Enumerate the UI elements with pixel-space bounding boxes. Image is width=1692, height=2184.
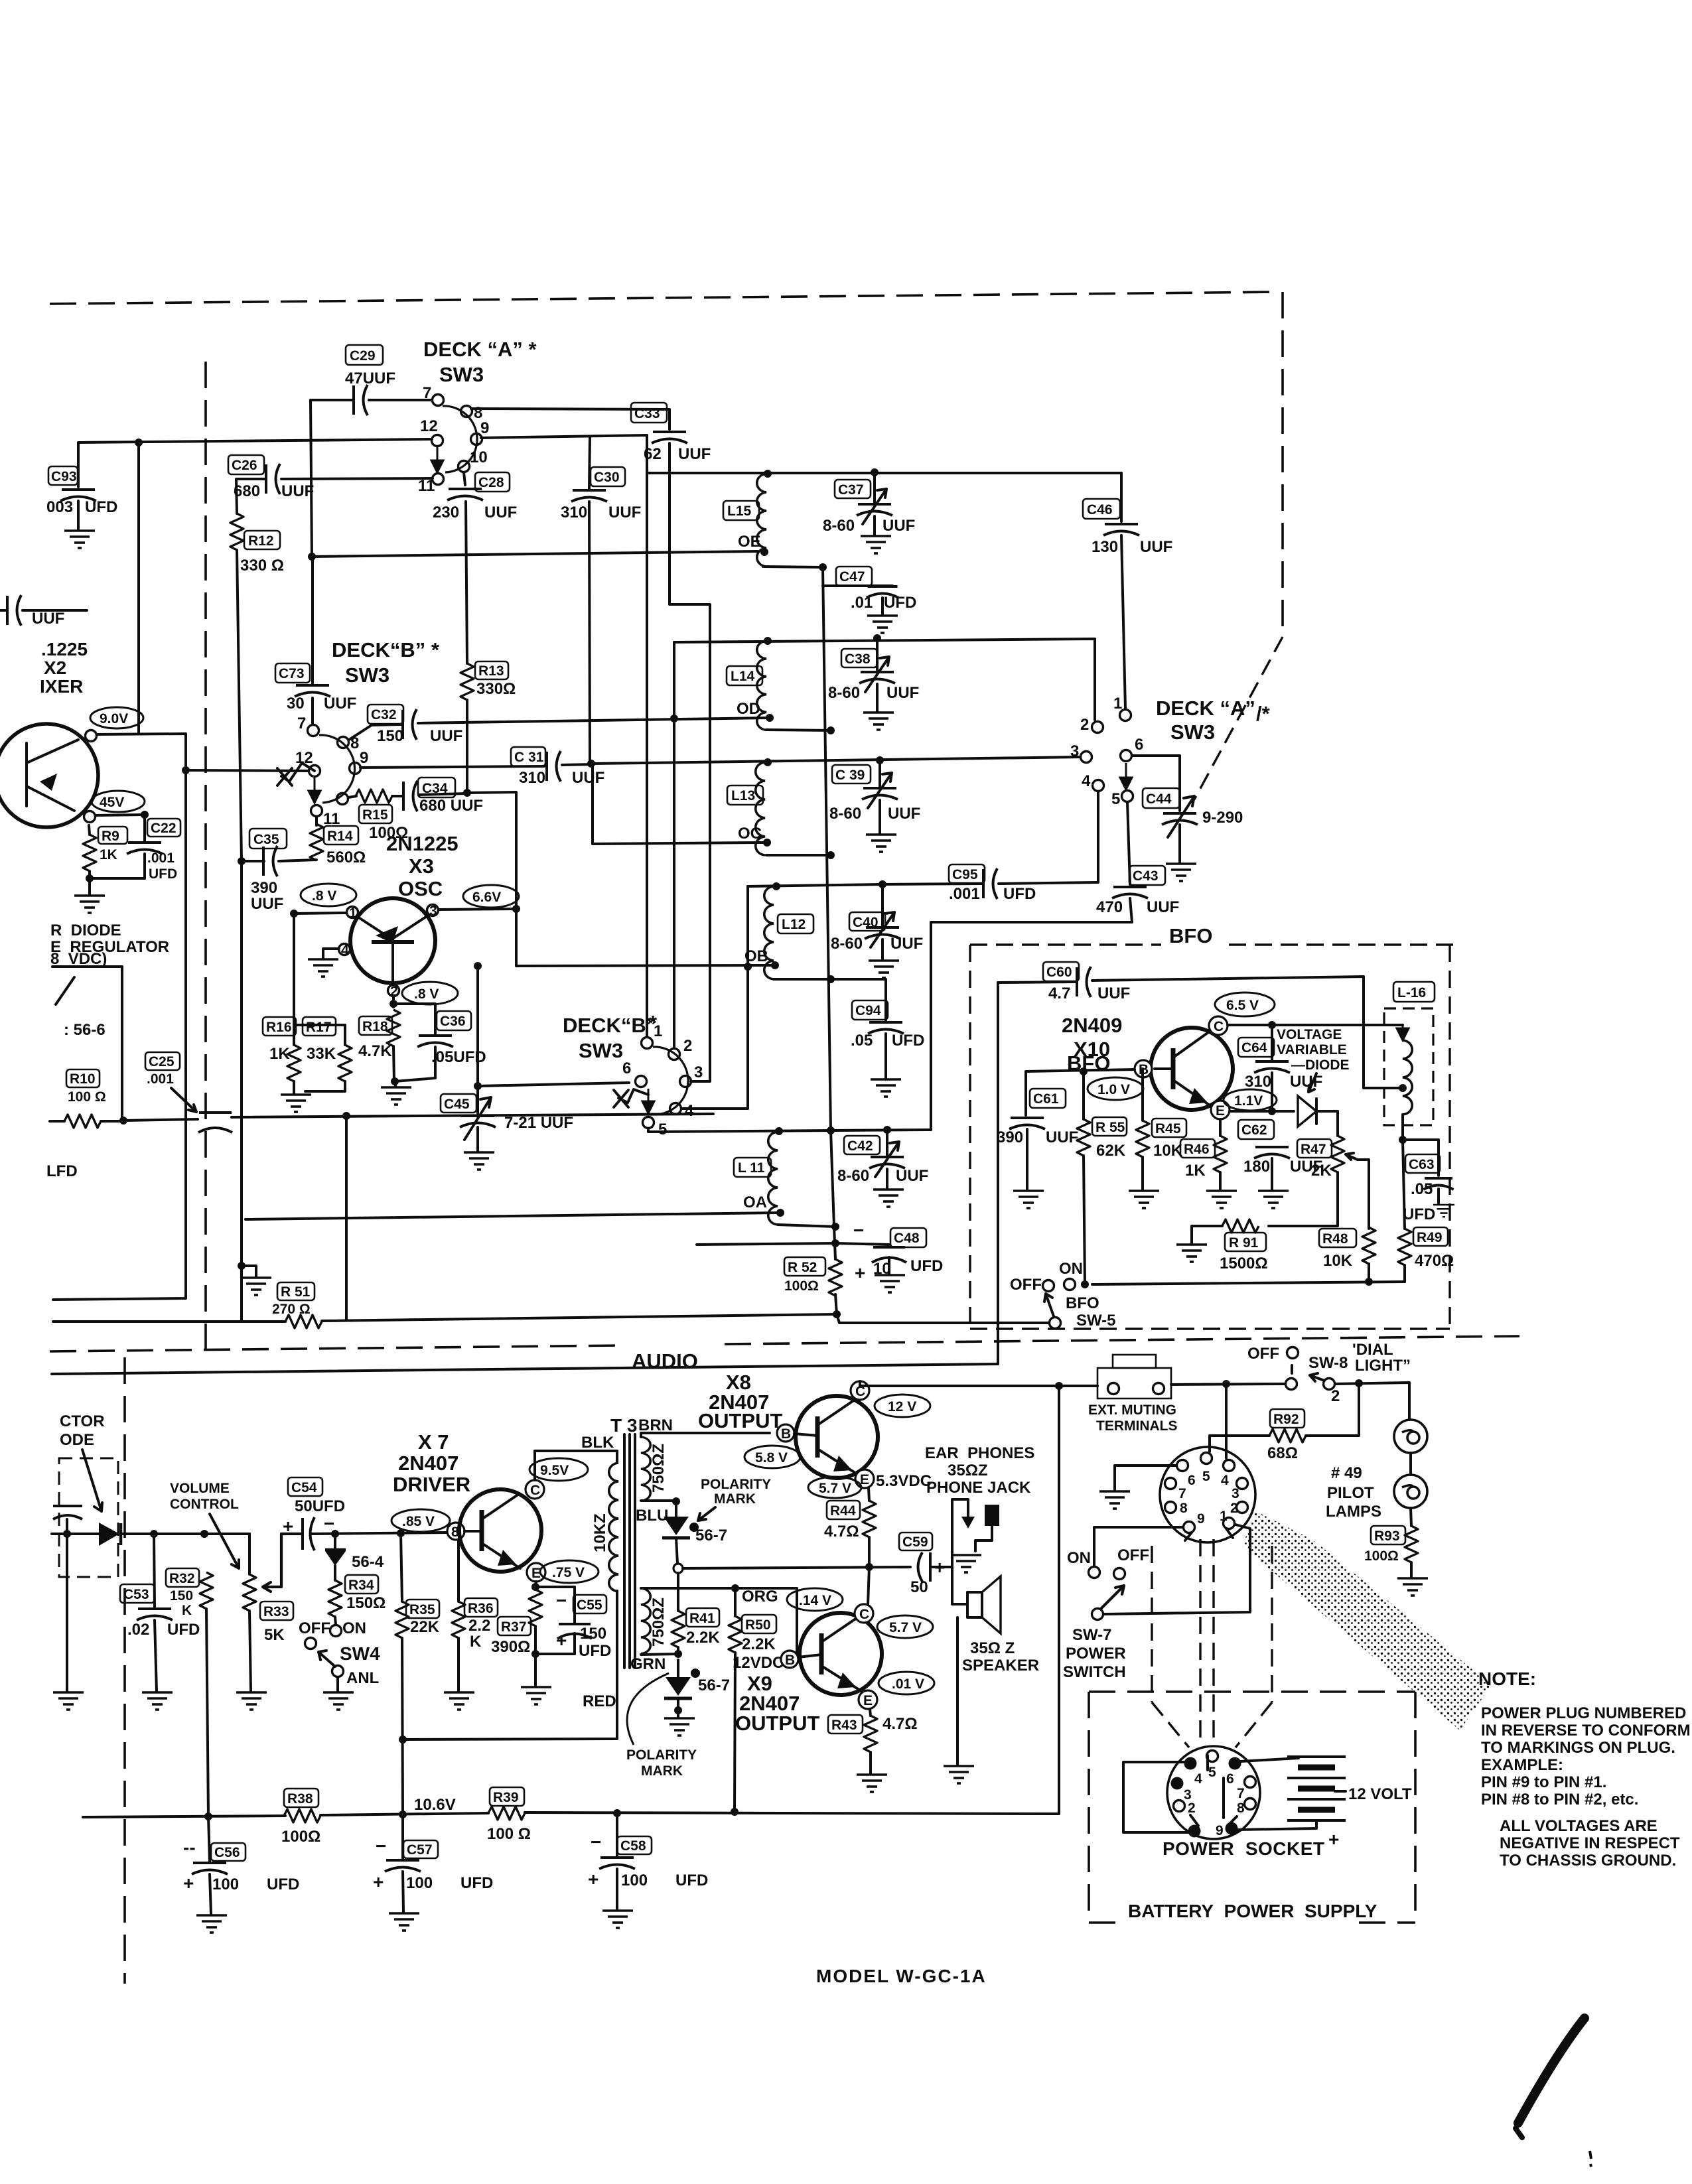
- capacitor C73: [275, 557, 356, 724]
- svg-text:.8 V: .8 V: [312, 888, 336, 904]
- junction C37: [871, 468, 879, 476]
- junction R18 bottom: [391, 1077, 399, 1085]
- junction L14 top: [764, 637, 772, 645]
- svg-text:C42: C42: [847, 1138, 873, 1154]
- junction C38: [873, 634, 881, 642]
- svg-text:.85 V: .85 V: [402, 1514, 435, 1529]
- wire pin2/C45 line: [392, 1004, 395, 1007]
- svg-text:4: 4: [685, 1102, 694, 1120]
- capacitor C59: [898, 1533, 952, 1596]
- svg-text:R45: R45: [1155, 1121, 1181, 1136]
- audio top rail wire: [52, 983, 998, 1374]
- svg-text:UUF: UUF: [888, 805, 920, 823]
- junction: [182, 766, 190, 774]
- junction C57: [399, 1810, 407, 1818]
- capacitor C40 variable: [831, 884, 923, 978]
- svg-text:POLARITY: POLARITY: [701, 1477, 771, 1492]
- svg-text:5: 5: [1111, 790, 1120, 808]
- svg-text:9: 9: [480, 419, 489, 437]
- pin C of X7: [526, 1480, 544, 1499]
- coil L13: [727, 762, 765, 855]
- svg-text:UFD: UFD: [267, 1876, 299, 1893]
- wire R12 down to C35 node: [237, 550, 242, 861]
- pin 2 of X3: [388, 985, 399, 996]
- capacitor C95: [882, 791, 1098, 903]
- switch SW4 ANL: [299, 1619, 380, 1710]
- svg-text:ON: ON: [1059, 1260, 1083, 1278]
- junction L16 bottom: [1399, 1136, 1407, 1144]
- wire L13 bottom to bus: [766, 854, 831, 856]
- svg-text:35Ω Z: 35Ω Z: [970, 1639, 1015, 1657]
- cut-off series capacitor fragment left edge: [0, 595, 87, 628]
- svg-text:PHONE JACK: PHONE JACK: [926, 1479, 1031, 1497]
- svg-text:C: C: [1214, 1019, 1224, 1034]
- svg-text:R41: R41: [689, 1611, 715, 1626]
- capacitor C43: [931, 802, 1179, 1130]
- pin C of X8: [851, 1381, 869, 1400]
- svg-text:TO CHASSIS GROUND.: TO CHASSIS GROUND.: [1500, 1852, 1676, 1870]
- junction GRN: [674, 1650, 682, 1658]
- coil L11: [734, 1132, 778, 1225]
- svg-text:IN REVERSE TO CONFORM: IN REVERSE TO CONFORM: [1481, 1722, 1691, 1740]
- resistor R55: [1077, 1071, 1127, 1284]
- svg-text:R 55: R 55: [1095, 1120, 1125, 1135]
- svg-text:UFD: UFD: [85, 498, 117, 516]
- svg-text:C93: C93: [51, 469, 77, 484]
- junction base node: [1080, 1067, 1088, 1075]
- resistor R16: [263, 1017, 301, 1081]
- wire feedback to T3 red: [403, 1591, 617, 1740]
- capacitor C39 variable: [829, 760, 920, 852]
- resistor R41: [671, 1573, 720, 1654]
- svg-text:10KZ: 10KZ: [591, 1513, 609, 1552]
- junction R51/x522: [833, 1310, 841, 1318]
- label X8 2N407 OUTPUT: [698, 1371, 783, 1432]
- svg-text:1K: 1K: [1185, 1162, 1206, 1180]
- junction ground stub: [238, 1262, 246, 1270]
- svg-text:+: +: [283, 1516, 293, 1536]
- wire BFO bottom rail: [1092, 1282, 1405, 1284]
- svg-text:C47: C47: [839, 569, 865, 584]
- switch SW-7 power: [1063, 1546, 1149, 1681]
- pilot lamp 1: [1394, 1420, 1427, 1453]
- resistor R39: [487, 1787, 531, 1843]
- svg-text:B: B: [785, 1653, 795, 1668]
- wire R10 node to C25: [124, 1119, 198, 1121]
- wire secondary bottom to GRN junction: [641, 1654, 678, 1655]
- pin 4 of X3: [339, 944, 350, 955]
- svg-text:OA: OA: [743, 1194, 767, 1211]
- label 2N1225 X3 OSC: [386, 832, 458, 900]
- junction OE wire: [308, 553, 316, 561]
- capacitor C46: [1083, 473, 1172, 709]
- wire C31 node to OC tap: [593, 764, 763, 844]
- svg-text:100Ω: 100Ω: [784, 1278, 819, 1294]
- svg-text:L13: L13: [731, 788, 755, 803]
- svg-text:R35: R35: [409, 1602, 435, 1617]
- svg-text:—DIODE: —DIODE: [1291, 1058, 1350, 1073]
- svg-text:UUF: UUF: [890, 935, 923, 953]
- svg-text:C54: C54: [291, 1480, 317, 1495]
- svg-text:C60: C60: [1046, 965, 1072, 980]
- capacitor C57: [373, 1814, 493, 1931]
- svg-text:K: K: [470, 1633, 482, 1651]
- svg-text:4.7K: 4.7K: [358, 1042, 392, 1060]
- svg-text:GRN: GRN: [630, 1655, 666, 1673]
- svg-text:2N407: 2N407: [398, 1452, 458, 1475]
- svg-text:C 31: C 31: [514, 750, 544, 765]
- wire C93 node to deck B contact 12: [78, 439, 432, 443]
- svg-text:OFF: OFF: [299, 1619, 330, 1637]
- capacitor C44 variable: [1132, 756, 1243, 881]
- wire pin1 to C22 node: [96, 815, 145, 815]
- junction: [290, 910, 298, 918]
- junction R10: [119, 1117, 127, 1125]
- wire ORG lead: [641, 1588, 797, 1653]
- junction OC tap: [763, 839, 771, 847]
- pin 3 of X2: [86, 730, 97, 742]
- junction lower diode bottom: [674, 1706, 682, 1714]
- svg-text:UFD: UFD: [675, 1872, 708, 1889]
- svg-text:UUF: UUF: [32, 610, 64, 628]
- wire L15 bottom to bus: [763, 567, 823, 567]
- svg-text:2.2K: 2.2K: [686, 1629, 720, 1647]
- svg-text:100Ω: 100Ω: [281, 1828, 320, 1846]
- label X7 2N407 DRIVER: [393, 1430, 470, 1496]
- wire X8 collector: [860, 1381, 1059, 1386]
- wire OA from C45 line: [246, 1213, 778, 1219]
- svg-text:UUF: UUF: [886, 684, 919, 702]
- svg-text:C29: C29: [350, 348, 376, 364]
- resistor R44: [824, 1488, 876, 1567]
- top dash-dot border: [50, 292, 1281, 304]
- arrow from regulator label: [56, 977, 74, 1004]
- svg-text:R93: R93: [1374, 1529, 1400, 1544]
- svg-text:MARK: MARK: [641, 1763, 683, 1779]
- svg-text:UFD: UFD: [149, 866, 177, 882]
- capacitor C33: [631, 403, 711, 1081]
- svg-text:R10: R10: [70, 1071, 96, 1087]
- junction C64: [1268, 1021, 1276, 1029]
- voltage 5.7V: [808, 1477, 861, 1498]
- wire pin1 to R16 node: [294, 913, 346, 914]
- svg-text:310: 310: [561, 504, 587, 521]
- svg-text:−: −: [376, 1836, 386, 1856]
- svg-text:C53: C53: [123, 1587, 149, 1602]
- label volume control: [170, 1481, 239, 1568]
- svg-text:+: +: [556, 1630, 567, 1651]
- svg-text:C59: C59: [902, 1535, 928, 1550]
- svg-text:C73: C73: [279, 666, 305, 681]
- svg-text:1: 1: [1220, 1509, 1228, 1524]
- svg-text:8 VDC): 8 VDC): [50, 950, 107, 968]
- svg-text:6.6V: 6.6V: [472, 890, 501, 905]
- left dash-dot border audio section: [123, 1357, 126, 1984]
- svg-text:2: 2: [1331, 1387, 1340, 1405]
- svg-text:8: 8: [1237, 1801, 1245, 1816]
- svg-text:7: 7: [423, 384, 431, 402]
- label detector diode (cut): [60, 1412, 105, 1449]
- svg-text:.05: .05: [1411, 1180, 1433, 1198]
- label polarity mark upper: [689, 1477, 771, 1532]
- junction X8 collector riser: [1055, 1382, 1063, 1390]
- svg-text:100: 100: [406, 1874, 433, 1892]
- svg-text:1.1V: 1.1V: [1234, 1093, 1263, 1109]
- diode 56-7 lower: [664, 1660, 730, 1710]
- svg-text:UUF: UUF: [324, 695, 356, 713]
- label 2N409 X10 BFO: [1062, 1014, 1122, 1075]
- junction pin2: [389, 1000, 397, 1008]
- svg-text:ON: ON: [342, 1619, 366, 1637]
- capacitor C28: [433, 472, 517, 663]
- svg-text:C33: C33: [634, 406, 660, 421]
- svg-text:'DIAL: 'DIAL: [1352, 1341, 1393, 1359]
- svg-text:6: 6: [1135, 736, 1143, 754]
- voltage .85V: [391, 1509, 450, 1532]
- svg-text:4.7Ω: 4.7Ω: [882, 1715, 918, 1733]
- svg-text:CONTROL: CONTROL: [170, 1497, 239, 1512]
- svg-text:B: B: [781, 1426, 791, 1442]
- svg-text:−: −: [556, 1590, 567, 1611]
- voltage .75V: [540, 1560, 599, 1583]
- capacitor C58: [588, 1813, 708, 1928]
- svg-text:4: 4: [341, 943, 349, 958]
- svg-text:UFD: UFD: [884, 594, 916, 612]
- svg-text:ANL: ANL: [346, 1669, 379, 1687]
- wire lower-left horizontal: [53, 1320, 285, 1323]
- voltage .8 V (pin1): [301, 884, 356, 906]
- svg-text:1: 1: [1113, 695, 1122, 713]
- svg-text:EXAMPLE:: EXAMPLE:: [1481, 1756, 1563, 1774]
- svg-text:C63: C63: [1409, 1157, 1435, 1172]
- transistor X2 (2N1225 mixer, cut off at edge): [0, 724, 98, 827]
- junction C45 branch: [474, 962, 482, 970]
- svg-text:4.7Ω: 4.7Ω: [824, 1523, 859, 1540]
- svg-text:+: +: [588, 1869, 599, 1889]
- svg-text:LIGHT”: LIGHT”: [1355, 1357, 1411, 1375]
- svg-text:12 VOLT: 12 VOLT: [1348, 1785, 1412, 1803]
- svg-text:45V: 45V: [100, 795, 124, 810]
- svg-text:C62: C62: [1241, 1123, 1267, 1138]
- svg-text:POWER PLUG NUMBERED: POWER PLUG NUMBERED: [1481, 1704, 1686, 1722]
- svg-text:7: 7: [1237, 1786, 1245, 1801]
- voltage 1.1V: [1224, 1089, 1277, 1111]
- svg-text:5: 5: [1208, 1765, 1216, 1780]
- svg-text:R48: R48: [1322, 1231, 1348, 1247]
- resistor R45: [1129, 1069, 1186, 1208]
- wire deck B lower 4: [681, 886, 748, 1109]
- voltage .14V: [787, 1588, 843, 1611]
- svg-text:C35: C35: [253, 832, 279, 847]
- svg-text:R34: R34: [348, 1578, 374, 1593]
- transistor X7: [459, 1489, 541, 1572]
- wire X2 pin3 to vertical: [53, 734, 186, 1300]
- svg-text:C44: C44: [1146, 791, 1172, 807]
- capacitor C62: [1238, 1120, 1322, 1208]
- voltage 4.5V: [92, 791, 145, 812]
- capacitor C63: [1403, 1140, 1454, 1223]
- svg-text:LAMPS: LAMPS: [1326, 1503, 1381, 1521]
- wire deck B 5 to L11 top wire: [648, 1128, 931, 1132]
- svg-text:C64: C64: [1241, 1040, 1267, 1056]
- battery 12 volt: [1287, 1757, 1412, 1850]
- junction on C93 wire: [135, 439, 143, 446]
- junction R37 bottom: [531, 1650, 539, 1658]
- svg-text:5: 5: [1202, 1469, 1210, 1484]
- junction C58: [613, 1809, 621, 1817]
- resistor R34: [328, 1566, 386, 1625]
- junction C53: [150, 1530, 158, 1538]
- capacitor C31: [360, 747, 604, 787]
- junction BLU: [672, 1497, 680, 1505]
- svg-text:.001: .001: [147, 851, 175, 866]
- svg-text:50: 50: [910, 1578, 928, 1596]
- svg-text:6.5 V: 6.5 V: [1226, 998, 1259, 1013]
- resistor R18: [358, 1010, 400, 1081]
- svg-text:C28: C28: [478, 475, 504, 490]
- svg-text:12 V: 12 V: [888, 1399, 916, 1414]
- T3 primary coil: [591, 1463, 618, 1592]
- diode 56-4: [325, 1534, 384, 1571]
- transistor X9: [798, 1613, 882, 1695]
- svg-text:100Ω: 100Ω: [1364, 1548, 1399, 1564]
- switch SW-5 BFO: [1010, 1260, 1116, 1330]
- capacitor C56: [183, 1816, 299, 1933]
- pen mark: [1516, 2018, 1591, 2167]
- capacitor C22: [127, 815, 180, 882]
- svg-text:C26: C26: [232, 458, 257, 473]
- svg-text:C45: C45: [444, 1097, 470, 1112]
- svg-text:270 Ω: 270 Ω: [272, 1302, 311, 1317]
- svg-text:TERMINALS: TERMINALS: [1096, 1418, 1178, 1434]
- capacitor C61: [997, 1071, 1078, 1208]
- svg-text:150Ω: 150Ω: [346, 1594, 386, 1612]
- svg-text:SW3: SW3: [579, 1039, 623, 1062]
- label meter diode voltage regulator (cut): [50, 921, 169, 968]
- capacitor C55: [535, 1587, 611, 1660]
- svg-text:UFD: UFD: [1403, 1205, 1435, 1223]
- wire R51 to SW5 line: [322, 1314, 837, 1321]
- svg-text:.14 V: .14 V: [799, 1593, 831, 1608]
- wire pin4 to ground: [323, 949, 338, 958]
- svg-text:230: 230: [433, 504, 459, 521]
- svg-text:BRN: BRN: [638, 1416, 673, 1434]
- resistor R37: [491, 1590, 542, 1656]
- svg-text:3: 3: [1070, 742, 1079, 760]
- svg-text:1: 1: [349, 906, 357, 921]
- svg-text:C56: C56: [214, 1845, 240, 1860]
- svg-text:C61: C61: [1033, 1091, 1059, 1107]
- svg-text:3: 3: [429, 904, 437, 919]
- svg-text:1.0 V: 1.0 V: [1097, 1082, 1130, 1097]
- svg-text:R DIODE: R DIODE: [50, 921, 121, 939]
- svg-text:680 UUF: 680 UUF: [419, 797, 483, 815]
- junction C35 left: [238, 857, 246, 865]
- svg-text:SW4: SW4: [340, 1643, 380, 1664]
- ground under R18: [381, 1081, 411, 1105]
- junction L15 top: [764, 470, 772, 478]
- varactor diode 56-7 style: [1298, 1096, 1338, 1126]
- junction L13 top: [764, 758, 772, 766]
- svg-text:BFO: BFO: [1066, 1294, 1099, 1312]
- svg-text:560Ω: 560Ω: [326, 849, 366, 866]
- svg-text:DECK“B” *: DECK“B” *: [332, 638, 440, 661]
- transformer T3 core: [610, 1415, 637, 1668]
- junction: [63, 1530, 71, 1538]
- svg-text:C55: C55: [577, 1598, 602, 1613]
- wire X9 collector up to C59 node: [868, 1567, 869, 1605]
- voltage 12V: [875, 1395, 930, 1417]
- capacitor C60: [998, 962, 1403, 1088]
- svg-text:.8 V: .8 V: [414, 987, 439, 1002]
- svg-text:R17: R17: [306, 1020, 332, 1035]
- svg-text:R15: R15: [362, 807, 388, 823]
- wire L13 top / contact 3: [593, 757, 1082, 764]
- svg-text:6: 6: [622, 1059, 631, 1077]
- T3 secondary top: [638, 1416, 673, 1501]
- junction L12 top: [772, 882, 780, 890]
- svg-text:470: 470: [1096, 898, 1123, 916]
- label DECK A SW3 (right): [1156, 697, 1271, 744]
- svg-text:ON: ON: [1067, 1549, 1091, 1567]
- wire L12 bottom: [774, 978, 831, 981]
- pin C of X10: [1209, 1016, 1228, 1035]
- svg-text:2N409: 2N409: [1062, 1014, 1122, 1037]
- rotary switch SW3 deck A right wafer: [1070, 695, 1143, 808]
- svg-text:47UUF: 47UUF: [345, 370, 395, 387]
- label DECK B SW3 (upper): [332, 638, 440, 687]
- junction R50 bottom: [731, 1808, 739, 1816]
- svg-text:8: 8: [1180, 1501, 1188, 1516]
- svg-text:6: 6: [1188, 1473, 1196, 1488]
- svg-text:L-16: L-16: [1397, 985, 1426, 1000]
- svg-text:UFD: UFD: [460, 1874, 493, 1892]
- junction: [1355, 1379, 1363, 1387]
- svg-text:2.2K: 2.2K: [742, 1635, 776, 1653]
- svg-text:310: 310: [1245, 1073, 1271, 1091]
- pin E of X10: [1211, 1101, 1230, 1119]
- junction emitter node: [1268, 1107, 1276, 1115]
- junction C31/C30 node: [587, 760, 595, 768]
- svg-text:C30: C30: [594, 470, 620, 485]
- ground stub: [241, 1266, 271, 1295]
- potentiometer R33 volume: [236, 1534, 301, 1710]
- audio divider dashed: [50, 1345, 622, 1351]
- svg-text:150: 150: [580, 1625, 606, 1643]
- svg-text:390: 390: [997, 1128, 1023, 1146]
- svg-text:SW3: SW3: [345, 663, 389, 687]
- arrow to diode: [82, 1450, 102, 1511]
- svg-text:OC: OC: [738, 825, 762, 843]
- capacitor C25: [145, 1052, 232, 1132]
- svg-text:UUF: UUF: [896, 1167, 928, 1185]
- svg-text:.01 V: .01 V: [892, 1676, 924, 1692]
- svg-text:SPEAKER: SPEAKER: [962, 1657, 1039, 1674]
- wire L14 bottom to bus: [766, 730, 831, 730]
- svg-text:C25: C25: [149, 1054, 175, 1069]
- svg-text:8-60: 8-60: [829, 805, 861, 823]
- svg-text:R38: R38: [287, 1791, 313, 1807]
- voltage 5.7V (X9): [877, 1615, 933, 1638]
- capacitor C48: [835, 1220, 943, 1292]
- wire L14 corner down: [673, 642, 675, 1048]
- svg-text:PILOT: PILOT: [1327, 1484, 1374, 1502]
- resistor R15: [348, 789, 408, 842]
- capacitor C42 variable: [837, 1130, 928, 1207]
- svg-text:100 Ω: 100 Ω: [487, 1825, 531, 1843]
- svg-text:X3: X3: [409, 854, 434, 878]
- resistor R43: [828, 1709, 918, 1792]
